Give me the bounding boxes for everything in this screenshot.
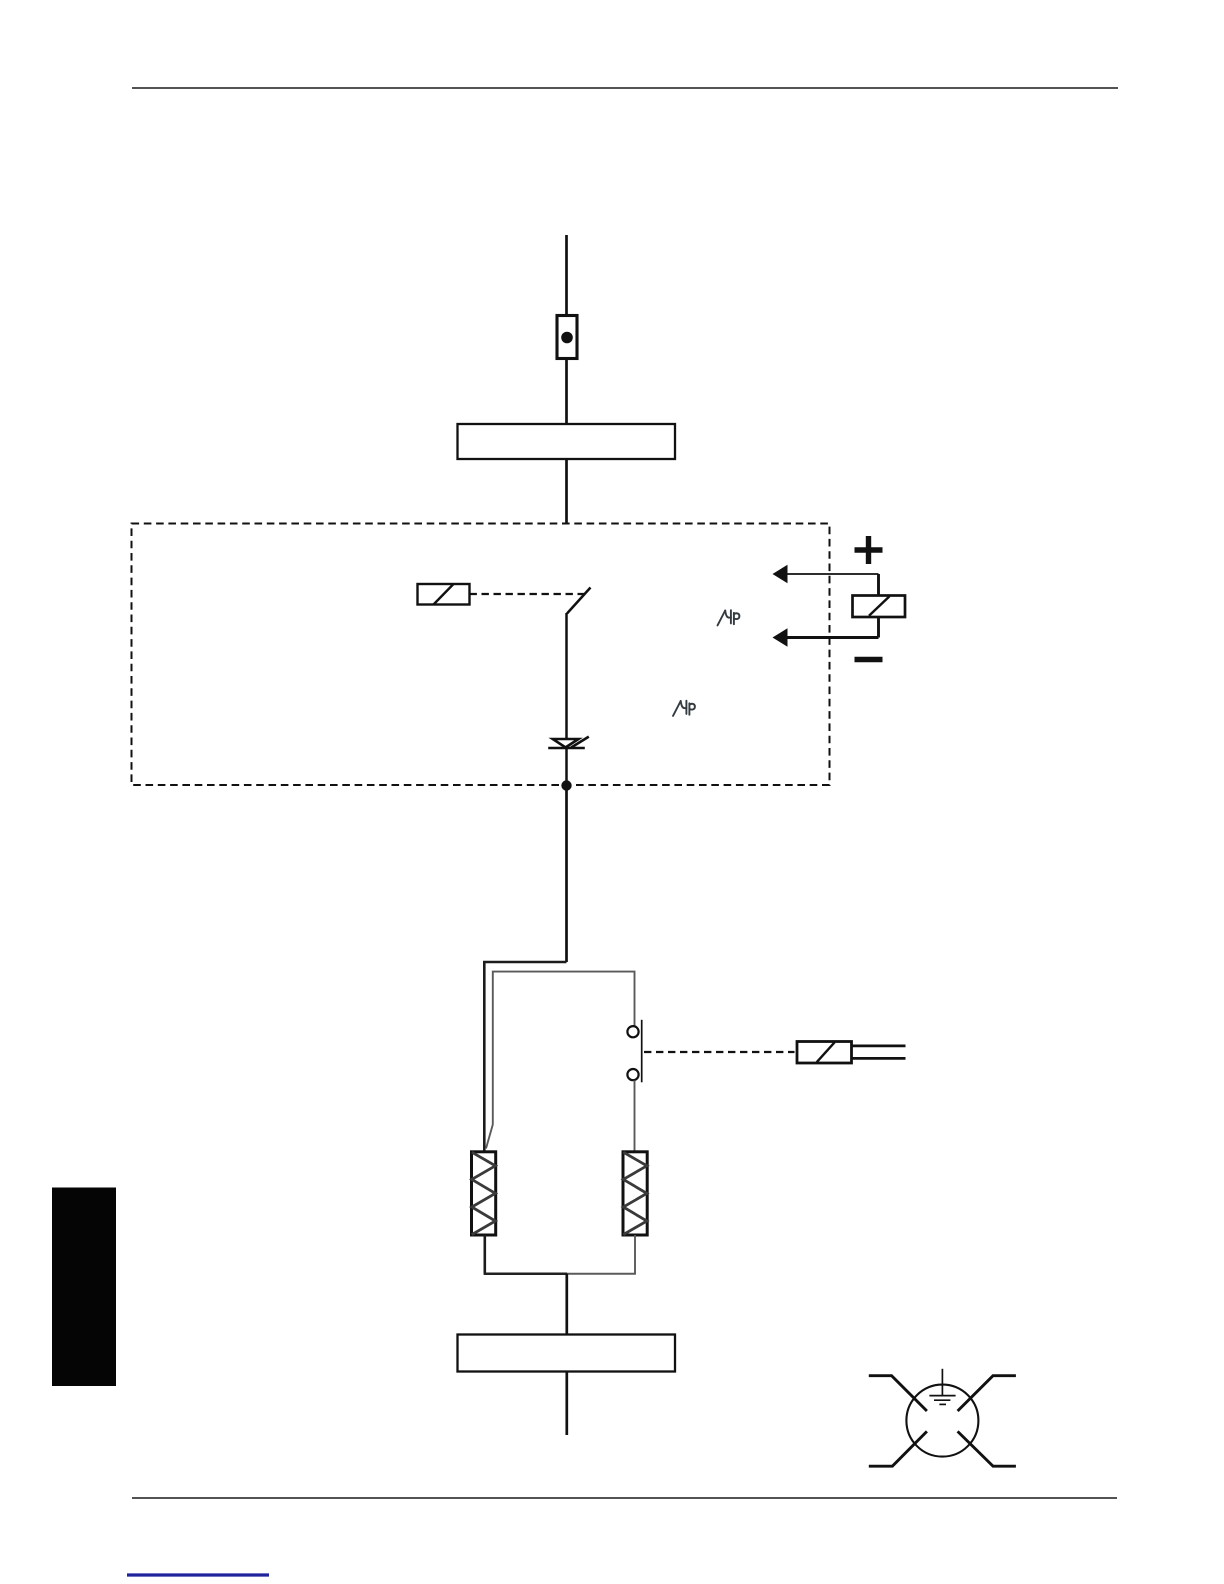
switch blade (stop switch, open) — [567, 588, 591, 614]
starter housing slanted edge (gray) — [486, 1125, 493, 1149]
wire — [877, 574, 880, 596]
connector: battery plug (rect with slash) — [853, 596, 906, 618]
ground circle — [906, 1385, 978, 1457]
bottom rail of starter (right, gray) — [567, 1273, 636, 1275]
dashed control link to button — [644, 1051, 795, 1053]
wire — [565, 359, 568, 425]
actuator coil symbol (stop switch solenoid) — [418, 584, 470, 605]
spoke lower-left — [869, 1431, 927, 1466]
footer link underline (blue) — [127, 1573, 269, 1576]
spoke upper-right — [958, 1376, 1016, 1411]
starter housing outline (gray) — [493, 972, 635, 1125]
battery plus sign — [855, 536, 883, 564]
wire — [565, 1372, 568, 1436]
spark gap / surge arrester symbol — [548, 737, 589, 748]
arrow lead, negative — [773, 628, 879, 646]
winding coil right (hatched rect) — [623, 1152, 647, 1235]
dashed control link — [470, 593, 586, 595]
arrow lead, positive — [773, 565, 879, 583]
label Np (lower) — [673, 701, 695, 716]
connector: switch plug (rect with slash) — [797, 1042, 852, 1064]
engine ground symbol (circle with spokes) — [869, 1369, 1016, 1466]
wire: left coil to bottom rail — [483, 1235, 486, 1274]
ground stem — [941, 1369, 943, 1396]
contact circle upper — [627, 1026, 638, 1037]
dashed module boundary (ignition module) — [132, 524, 830, 786]
spoke lower-right — [958, 1431, 1016, 1466]
pushbutton actuator bar — [641, 1020, 643, 1083]
spoke upper-left — [869, 1376, 927, 1411]
wire — [877, 617, 880, 638]
footer rule — [132, 1497, 1117, 1499]
wire — [565, 1274, 568, 1335]
wire — [565, 749, 568, 786]
header rule — [132, 87, 1118, 89]
wire: main feed down from module — [565, 786, 568, 963]
wire: elbow to starter left side — [484, 962, 566, 1152]
wire — [565, 459, 568, 525]
ground bar long — [929, 1395, 955, 1397]
wire: right coil to bottom rail (gray) — [634, 1235, 636, 1274]
junction node — [561, 780, 571, 790]
winding coil left (hatched rect) — [472, 1152, 496, 1235]
ground bar short — [939, 1403, 946, 1405]
battery minus sign — [855, 657, 883, 662]
wire — [565, 613, 568, 740]
black thumb-index tab — [52, 1188, 116, 1387]
wire: high-tension lead from top — [565, 235, 568, 316]
label box: spark plug (empty bar) — [458, 424, 676, 459]
connector: spark plug cap (rectangle with dot) — [557, 316, 577, 359]
label box: ground strap (empty bar) — [458, 1335, 676, 1372]
bottom rail of starter (left, dark) — [484, 1272, 567, 1275]
label Np (upper) — [718, 610, 740, 625]
ground bar mid — [934, 1399, 950, 1401]
twin leads from switch plug — [852, 1046, 906, 1059]
wire: right side down to coil (gray) — [634, 1080, 636, 1151]
contact circle lower — [627, 1069, 638, 1080]
